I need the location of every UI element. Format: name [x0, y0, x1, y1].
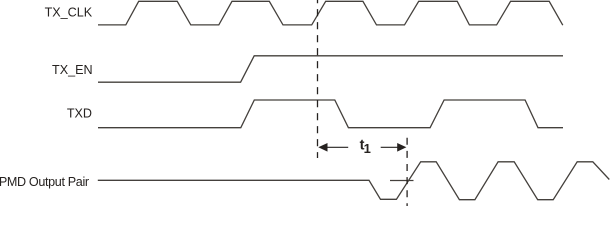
svg-text:TX_EN: TX_EN [52, 63, 93, 77]
svg-text:PMD Output Pair: PMD Output Pair [0, 175, 89, 189]
svg-text:TXD: TXD [67, 107, 92, 121]
svg-text:TX_CLK: TX_CLK [45, 5, 93, 19]
svg-text:1: 1 [364, 141, 371, 156]
